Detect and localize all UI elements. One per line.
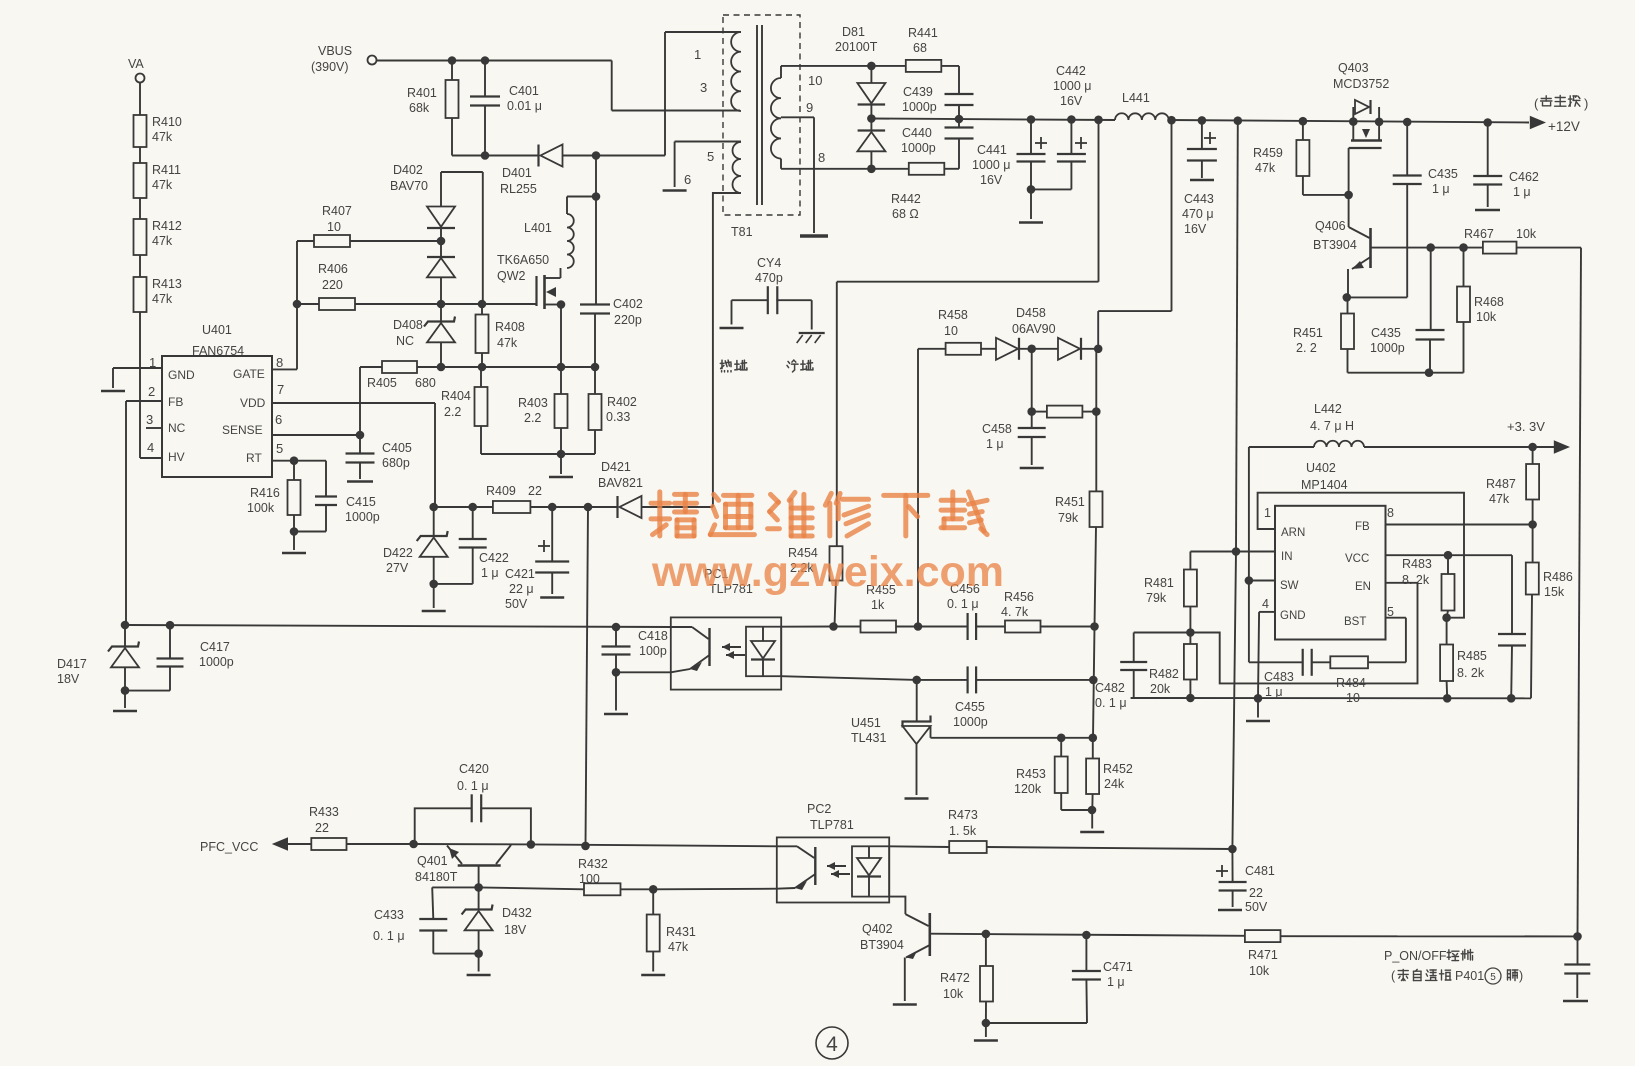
node xyxy=(121,686,130,695)
svg-text:C401: C401 xyxy=(509,84,539,98)
svg-text:): ) xyxy=(1584,96,1588,111)
resistor R402 xyxy=(589,367,637,454)
node xyxy=(1094,116,1103,125)
svg-text:VBUS: VBUS xyxy=(318,44,352,58)
svg-text:R402: R402 xyxy=(607,395,637,409)
wire xyxy=(124,691,126,708)
capacitor C417 xyxy=(157,625,234,690)
ground xyxy=(1019,221,1043,224)
node xyxy=(166,621,175,630)
wire source xyxy=(560,305,562,368)
node rail junction xyxy=(1403,118,1412,127)
wire xyxy=(1091,810,1093,829)
wire xyxy=(1030,189,1032,219)
svg-text:D421: D421 xyxy=(601,460,631,474)
svg-text:R459: R459 xyxy=(1253,146,1283,160)
node xyxy=(912,676,921,685)
capacitor C420 xyxy=(415,762,531,844)
wire xyxy=(139,147,141,163)
resistor R454 xyxy=(788,546,843,627)
node xyxy=(829,622,838,631)
wire xyxy=(452,155,539,157)
svg-text:L441: L441 xyxy=(1122,91,1150,105)
svg-text:): ) xyxy=(1519,969,1523,983)
svg-text:22: 22 xyxy=(1249,886,1263,900)
node xyxy=(867,114,876,123)
svg-text:5: 5 xyxy=(707,149,714,164)
wire base line xyxy=(432,887,584,889)
svg-text:GND: GND xyxy=(168,368,195,382)
svg-text:C439: C439 xyxy=(903,85,933,99)
node xyxy=(592,151,601,160)
node xyxy=(1092,407,1101,416)
wire secondary top xyxy=(781,66,871,78)
capacitor C421 xyxy=(505,507,569,611)
node page number 4 xyxy=(816,1027,848,1059)
svg-text:TL431: TL431 xyxy=(851,731,886,745)
svg-text:R408: R408 xyxy=(495,320,525,334)
capacitor unlabeled VCC xyxy=(1498,555,1526,698)
ground xyxy=(641,974,665,977)
inductor L441 xyxy=(1115,91,1169,120)
diode D422 (zener 27V) xyxy=(383,507,448,584)
svg-text:C402: C402 xyxy=(613,297,643,311)
svg-text:P401: P401 xyxy=(1455,969,1484,983)
node xyxy=(527,840,536,849)
wire xyxy=(478,954,480,972)
svg-text:R409: R409 xyxy=(486,484,516,498)
transformer aux winding xyxy=(733,142,742,193)
ground xyxy=(549,476,573,479)
node xyxy=(1459,243,1468,252)
svg-text:0.33: 0.33 xyxy=(606,410,630,424)
wire VDD drop to PC2 xyxy=(586,507,589,846)
wire xyxy=(125,690,170,692)
ground chassis cold xyxy=(797,333,825,343)
node xyxy=(1027,185,1036,194)
svg-text:R452: R452 xyxy=(1103,762,1133,776)
resistor R487 xyxy=(1486,447,1539,525)
diode D417 (zener 18V) xyxy=(57,625,139,690)
wire xyxy=(433,584,435,608)
svg-text:18V: 18V xyxy=(504,923,527,937)
capacitor C433 xyxy=(373,887,479,953)
diode D421 BAV821 xyxy=(598,460,713,518)
svg-text:79k: 79k xyxy=(1146,591,1167,605)
svg-text:ARN: ARN xyxy=(1281,527,1305,539)
node xyxy=(1027,115,1036,124)
svg-text:4: 4 xyxy=(1262,597,1269,611)
svg-text:220p: 220p xyxy=(614,313,642,327)
svg-text:R432: R432 xyxy=(578,857,608,871)
resistor R459 xyxy=(1253,121,1349,195)
wire xyxy=(731,300,733,324)
svg-text:R487: R487 xyxy=(1486,477,1516,491)
capacitor C456 xyxy=(947,582,1005,640)
svg-text:20k: 20k xyxy=(1150,682,1171,696)
resistor R405 xyxy=(360,361,441,435)
svg-text:1000 μ: 1000 μ xyxy=(972,158,1010,172)
wire rail feed down x1098 xyxy=(1098,120,1100,282)
svg-text:5: 5 xyxy=(1490,972,1496,983)
resistor R411 xyxy=(134,163,182,198)
resistor R432 xyxy=(578,857,653,895)
ground xyxy=(893,1003,917,1006)
node label P_ON/OFF xyxy=(1384,949,1523,984)
diode D401 RL255 xyxy=(500,145,563,197)
wire VCC stub xyxy=(1386,554,1513,556)
diode D81 lower xyxy=(857,119,885,169)
wire xyxy=(1257,698,1259,717)
svg-text:C415: C415 xyxy=(346,495,376,509)
svg-text:1 μ: 1 μ xyxy=(1513,185,1531,199)
svg-text:U451: U451 xyxy=(851,716,881,730)
svg-text:CY4: CY4 xyxy=(757,256,781,270)
svg-text:R473: R473 xyxy=(948,808,978,822)
svg-text:L442: L442 xyxy=(1314,402,1342,416)
svg-text:1: 1 xyxy=(1264,506,1271,520)
svg-text:8. 2k: 8. 2k xyxy=(1457,666,1485,680)
transformer secondary winding xyxy=(771,78,781,159)
wire xyxy=(1348,372,1464,374)
resistor R451 (2.2) xyxy=(1293,297,1354,372)
wire U402 wrap ARN xyxy=(1258,493,1464,618)
transistor Q403 MCD3752 (P-MOSFET) xyxy=(1333,61,1389,195)
svg-text:BT3904: BT3904 xyxy=(1313,238,1357,252)
wire +12V rail left xyxy=(871,119,1115,121)
capacitor C440 xyxy=(901,119,974,169)
svg-text:16V: 16V xyxy=(1184,222,1207,236)
wire xyxy=(294,531,326,533)
svg-text:L401: L401 xyxy=(524,221,552,235)
svg-text:1000p: 1000p xyxy=(901,141,936,155)
wire R406 line to gate xyxy=(441,303,537,305)
svg-text:10: 10 xyxy=(1346,691,1360,705)
capacitor CY4 xyxy=(732,256,812,314)
svg-text:MP1404: MP1404 xyxy=(1301,478,1348,492)
svg-text:1000p: 1000p xyxy=(199,655,234,669)
resistor R481 xyxy=(1144,552,1236,633)
node xyxy=(481,56,490,65)
svg-text:1 μ: 1 μ xyxy=(986,437,1004,451)
svg-text:R453: R453 xyxy=(1016,767,1046,781)
svg-text:D432: D432 xyxy=(502,906,532,920)
node SENSE junction xyxy=(356,431,365,440)
resistor R406 xyxy=(297,262,441,310)
svg-text:47k: 47k xyxy=(497,336,518,350)
capacitor C418 xyxy=(602,627,668,672)
svg-text:47k: 47k xyxy=(152,130,173,144)
node xyxy=(1232,547,1241,556)
node label hot ground xyxy=(720,360,747,372)
ground xyxy=(974,1039,998,1042)
node xyxy=(1228,845,1237,854)
svg-text:EN: EN xyxy=(1355,581,1371,593)
ground xyxy=(422,610,446,613)
svg-text:GND: GND xyxy=(1280,610,1306,622)
svg-text:TK6A650: TK6A650 xyxy=(497,253,549,267)
wire pin7 VDD xyxy=(272,403,435,507)
svg-text:68k: 68k xyxy=(409,101,430,115)
optocoupler PC1 LED xyxy=(751,627,775,677)
svg-text:SENSE: SENSE xyxy=(222,423,263,437)
node xyxy=(612,623,621,632)
resistor R408 xyxy=(476,304,525,367)
resistor R473 xyxy=(889,808,1232,853)
svg-text:VA: VA xyxy=(128,57,144,71)
svg-text:1. 5k: 1. 5k xyxy=(949,824,977,838)
svg-text:4: 4 xyxy=(147,440,154,455)
ground xyxy=(540,596,564,599)
diode D432 (zener 18V) xyxy=(462,887,532,953)
node xyxy=(293,300,302,309)
capacitor C402 xyxy=(580,297,643,367)
wire +12V drop to C481 xyxy=(1232,552,1236,850)
wire xyxy=(139,255,141,277)
svg-text:16V: 16V xyxy=(1060,94,1083,108)
svg-text:50V: 50V xyxy=(505,597,528,611)
svg-text:C418: C418 xyxy=(638,629,668,643)
ground xyxy=(1080,831,1104,834)
resistor R433 xyxy=(288,805,414,850)
svg-text:470p: 470p xyxy=(755,271,783,285)
node xyxy=(437,363,446,372)
capacitor C443 xyxy=(1182,120,1217,236)
node xyxy=(1344,191,1353,200)
svg-text:10k: 10k xyxy=(1249,964,1270,978)
svg-text:680p: 680p xyxy=(382,456,410,470)
resistor unlabeled xyxy=(1032,406,1097,418)
node xyxy=(1343,293,1352,302)
transformer core xyxy=(757,25,762,205)
svg-text:D422: D422 xyxy=(383,546,413,560)
svg-text:R412: R412 xyxy=(152,219,182,233)
svg-text:D408: D408 xyxy=(393,318,423,332)
svg-text:47k: 47k xyxy=(1255,161,1276,175)
node xyxy=(1186,628,1195,637)
svg-text:C458: C458 xyxy=(982,422,1012,436)
svg-text:6: 6 xyxy=(275,412,282,427)
wire BST xyxy=(1386,618,1406,663)
svg-text:4. 7 μ H: 4. 7 μ H xyxy=(1310,419,1354,433)
wire VBUS rail xyxy=(377,60,612,62)
svg-text:FB: FB xyxy=(168,395,183,409)
capacitor C435 (1u) xyxy=(1393,122,1458,297)
svg-text:www.gzweix.com: www.gzweix.com xyxy=(651,548,1004,596)
wire GND stub xyxy=(1258,612,1275,698)
svg-text:QW2: QW2 xyxy=(497,269,526,283)
node xyxy=(468,503,477,512)
svg-text:C435: C435 xyxy=(1428,167,1458,181)
node xyxy=(581,842,590,851)
wire SW stub xyxy=(1249,580,1275,582)
svg-text:RT: RT xyxy=(246,451,262,465)
diode D458 second xyxy=(1058,338,1081,360)
svg-text:0. 1 μ: 0. 1 μ xyxy=(457,779,489,793)
wire xyxy=(560,454,562,474)
transistor QW2 TK6A650 (MOSFET) xyxy=(497,253,561,309)
svg-text:06AV90: 06AV90 xyxy=(1012,322,1056,336)
shunt regulator U451 TL431 xyxy=(851,680,931,795)
resistor R403 xyxy=(518,367,568,454)
svg-text:20100T: 20100T xyxy=(835,40,878,54)
svg-text:47k: 47k xyxy=(152,178,173,192)
svg-text:IN: IN xyxy=(1281,551,1293,563)
wire R467 drop line xyxy=(1578,248,1582,937)
wire rail feed down x1171 xyxy=(1098,120,1171,349)
node xyxy=(1027,407,1036,416)
optocoupler PC1 light arrows xyxy=(722,643,745,659)
node xyxy=(1082,931,1091,940)
ground xyxy=(663,189,687,192)
capacitor C405 xyxy=(346,435,412,482)
wire xyxy=(1093,627,1095,738)
resistor R412 xyxy=(134,219,182,255)
wire to primary pin1 xyxy=(596,32,741,156)
svg-text:R482: R482 xyxy=(1149,667,1179,681)
node xyxy=(1254,694,1263,703)
U401 pin labels inside xyxy=(168,367,266,465)
op-amp U402 MP1404 body xyxy=(1275,461,1386,640)
svg-text:3: 3 xyxy=(146,412,153,427)
svg-text:24k: 24k xyxy=(1104,777,1125,791)
svg-text:R411: R411 xyxy=(152,163,181,177)
svg-text:R481: R481 xyxy=(1144,576,1174,590)
node xyxy=(557,300,566,309)
node xyxy=(478,300,487,309)
capacitor C441 xyxy=(972,120,1047,190)
capacitor C435 (1000p) xyxy=(1370,248,1445,373)
node xyxy=(429,580,438,589)
optocoupler PC2 phototransistor xyxy=(777,846,816,890)
node rail junction xyxy=(1349,117,1358,126)
optocoupler PC1 TLP781 box xyxy=(671,567,781,690)
wire xyxy=(1081,348,1098,350)
node xyxy=(1057,734,1066,743)
resistor R486 xyxy=(1526,525,1573,699)
wire xyxy=(1031,188,1071,190)
node xyxy=(1444,551,1453,560)
optocoupler PC2 LED xyxy=(857,846,881,896)
wire xyxy=(811,300,813,329)
node xyxy=(437,300,446,309)
resistor R484 xyxy=(1312,656,1406,705)
svg-text:C462: C462 xyxy=(1509,170,1539,184)
ground xyxy=(113,710,137,713)
optocoupler PC2 TLP781 box xyxy=(777,802,889,903)
svg-text:1 μ: 1 μ xyxy=(481,566,499,580)
resistor R485 xyxy=(1440,618,1487,699)
wire sense bottom xyxy=(481,453,595,455)
svg-text:8: 8 xyxy=(276,355,283,370)
svg-text:68: 68 xyxy=(913,41,927,55)
svg-text:C433: C433 xyxy=(374,908,404,922)
svg-text:47k: 47k xyxy=(152,292,173,306)
svg-text:0. 1 μ: 0. 1 μ xyxy=(947,597,979,611)
svg-text:BAV70: BAV70 xyxy=(390,179,428,193)
svg-text:R468: R468 xyxy=(1474,295,1504,309)
wire emitter-collector rail xyxy=(414,843,531,845)
svg-text:R485: R485 xyxy=(1457,649,1487,663)
transformer T81 shield box xyxy=(723,15,800,239)
wire R405 line xyxy=(441,366,595,368)
wire xyxy=(1364,446,1529,448)
svg-text:C481: C481 xyxy=(1245,864,1275,878)
svg-text:2. 2: 2. 2 xyxy=(1296,341,1317,355)
svg-text:10: 10 xyxy=(808,73,822,88)
node xyxy=(955,115,964,124)
wire FB line xyxy=(126,625,671,627)
node xyxy=(448,56,457,65)
node xyxy=(1245,576,1254,585)
node xyxy=(1442,613,1451,622)
node +3.3V arrow xyxy=(1507,419,1570,454)
svg-text:10k: 10k xyxy=(1476,310,1497,324)
svg-text:6: 6 xyxy=(684,172,691,187)
svg-text:8: 8 xyxy=(1387,506,1394,520)
svg-text:Q406: Q406 xyxy=(1315,219,1346,233)
node RT junction xyxy=(290,456,299,465)
svg-text:120k: 120k xyxy=(1014,782,1042,796)
svg-text:470 μ: 470 μ xyxy=(1182,207,1214,221)
svg-text:R486: R486 xyxy=(1543,570,1573,584)
wire xyxy=(1020,348,1058,350)
svg-text:84180T: 84180T xyxy=(415,870,458,884)
watermark line2 xyxy=(651,548,1004,596)
svg-text:C443: C443 xyxy=(1184,192,1214,206)
node xyxy=(478,363,487,372)
wire secondary bottom xyxy=(781,159,871,169)
capacitor C439 xyxy=(902,66,974,119)
node xyxy=(429,503,438,512)
node xyxy=(592,192,601,201)
node xyxy=(867,165,876,174)
svg-text:R405: R405 xyxy=(367,376,397,390)
svg-text:79k: 79k xyxy=(1058,511,1079,525)
node xyxy=(1186,694,1195,703)
svg-text:10: 10 xyxy=(944,324,958,338)
svg-text:FB: FB xyxy=(1355,521,1370,533)
svg-text:4. 7k: 4. 7k xyxy=(1001,605,1029,619)
svg-text:R456: R456 xyxy=(1004,590,1034,604)
wire xyxy=(615,672,617,710)
svg-text:10k: 10k xyxy=(943,987,964,1001)
svg-text:BST: BST xyxy=(1344,616,1366,628)
svg-text:VCC: VCC xyxy=(1345,553,1369,565)
node VBUS terminal xyxy=(311,44,377,74)
svg-text:1 μ: 1 μ xyxy=(1432,182,1450,196)
node xyxy=(1443,694,1452,703)
wire R454 feed xyxy=(837,282,1099,547)
svg-text:C422: C422 xyxy=(479,551,509,565)
capacitor C482 xyxy=(1095,633,1147,711)
capacitor C455 xyxy=(917,666,1094,729)
svg-text:5: 5 xyxy=(276,441,283,456)
svg-text:SW: SW xyxy=(1280,580,1299,592)
svg-text:R413: R413 xyxy=(152,277,182,291)
wire PC1 LED bottom to C455 xyxy=(781,676,917,680)
svg-text:22: 22 xyxy=(528,484,542,498)
wire xyxy=(616,671,671,673)
transistor Q402 BT3904 xyxy=(860,897,930,1001)
svg-text:C420: C420 xyxy=(459,762,489,776)
U402 pin labels inside xyxy=(1280,521,1371,628)
wire U402 ground line xyxy=(1131,697,1531,699)
resistor R471 xyxy=(1245,930,1578,978)
node xyxy=(548,503,557,512)
svg-text:1000 μ: 1000 μ xyxy=(1053,79,1091,93)
node xyxy=(1088,806,1097,815)
